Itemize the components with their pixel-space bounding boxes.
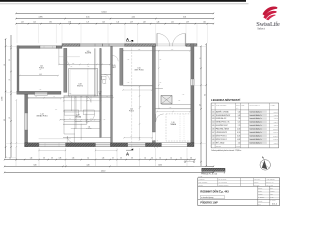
wall interior horiz L	[155, 108, 190, 110]
interior dim vert room 1.12	[139, 87, 141, 141]
svg-text:9,82: 9,82	[238, 115, 241, 117]
sill line lower left	[39, 138, 71, 140]
window dim stubs bottom	[39, 149, 66, 151]
bath fixture 1	[64, 110, 79, 115]
cluster vert x75	[74, 96, 76, 129]
witness lines top	[16, 24, 18, 44]
french door opening	[156, 43, 186, 45]
svg-text:1.01: 1.01	[40, 66, 43, 68]
svg-text:42,16: 42,16	[237, 132, 241, 134]
dimension column right inner	[200, 46, 202, 166]
svg-text:1,25: 1,25	[127, 59, 130, 61]
chimney base line	[162, 103, 191, 105]
svg-text:1,43: 1,43	[102, 22, 105, 24]
door arc room1	[63, 60, 69, 66]
svg-text:1.03: 1.03	[98, 92, 101, 94]
tech divider	[87, 68, 89, 96]
svg-text:1,25: 1,25	[87, 66, 90, 68]
witness stubs right	[194, 45, 206, 47]
svg-text:1,42: 1,42	[116, 22, 119, 24]
dimension row 1 (overall)	[16, 12, 214, 14]
svg-text:14,10: 14,10	[101, 170, 106, 172]
svg-text:1.12: 1.12	[130, 109, 133, 111]
svg-text:1.05: 1.05	[212, 125, 215, 127]
wc fixture	[102, 76, 106, 80]
title block upper verticals	[217, 178, 219, 187]
wall notch horizontal	[17, 91, 61, 94]
svg-text:1,4: 1,4	[87, 158, 89, 160]
svg-text:5,6: 5,6	[199, 104, 201, 106]
chimney	[161, 96, 172, 105]
svg-text:TECH. M.: TECH. M.	[77, 85, 84, 87]
vert x64 lower	[63, 96, 65, 135]
wall interior vert K	[152, 46, 155, 132]
cluster horiz y121.4	[64, 120, 82, 122]
svg-text:4,52: 4,52	[132, 17, 135, 19]
wall interior horiz WC top	[101, 73, 112, 75]
svg-text:1.08: 1.08	[212, 135, 215, 137]
closet line	[58, 49, 60, 65]
wall top hatched right	[186, 44, 197, 47]
svg-text:1,23: 1,23	[21, 22, 24, 24]
svg-text:A: A	[126, 152, 129, 157]
svg-text:3,25: 3,25	[138, 49, 141, 51]
svg-text:1.09: 1.09	[76, 115, 79, 117]
wall left lower	[25, 94, 28, 146]
svg-text:14,10: 14,10	[101, 11, 107, 13]
svg-text:1,94: 1,94	[68, 22, 71, 24]
wall interior vert D	[100, 48, 101, 137]
svg-text:4,55: 4,55	[86, 17, 89, 19]
svg-text:Rožánky: Rožánky	[254, 182, 259, 184]
title block section lines	[198, 185, 280, 187]
svg-text:1,82: 1,82	[203, 22, 206, 24]
wall top hatched left	[62, 44, 80, 47]
svg-text:5,80: 5,80	[34, 164, 37, 166]
wall left upper	[17, 46, 19, 91]
svg-text:1,55: 1,55	[72, 158, 75, 160]
dim row interior y97.5	[28, 97, 113, 99]
svg-text:1,25: 1,25	[159, 59, 162, 61]
svg-text:keramická dlažba, 1x: keramická dlažba, 1x	[250, 115, 263, 117]
dimension row 2	[16, 18, 214, 20]
svg-text:1,59: 1,59	[186, 22, 189, 24]
svg-text:1,45: 1,45	[102, 158, 105, 160]
svg-text:1,92: 1,92	[49, 22, 52, 24]
svg-text:1.06: 1.06	[137, 68, 140, 70]
svg-text:keramická dlažba, 1x: keramická dlažba, 1x	[250, 135, 263, 137]
svg-text:Vypracoval:: Vypracoval:	[199, 179, 206, 181]
svg-text:2,1: 2,1	[199, 57, 201, 59]
svg-text:1.10: 1.10	[212, 142, 215, 144]
wall interior horiz G	[64, 95, 113, 97]
svg-text:10,30: 10,30	[158, 164, 162, 166]
svg-text:keramická dlažba, 1x: keramická dlažba, 1x	[250, 118, 263, 120]
cluster vert x86.9	[86, 96, 88, 124]
door arc terrace	[156, 114, 164, 122]
window right WR	[191, 79, 194, 86]
svg-text:1,25: 1,25	[103, 119, 106, 121]
opening bottom terrace	[162, 143, 188, 147]
dimension column left inner	[10, 35, 12, 158]
wall bottom	[25, 143, 194, 147]
svg-text:0,9: 0,9	[43, 158, 45, 160]
svg-text:PŮDORYS 1.NP: PŮDORYS 1.NP	[200, 202, 218, 205]
svg-text:keramická dlažba, 1x: keramická dlažba, 1x	[250, 142, 263, 144]
svg-text:6,21: 6,21	[238, 122, 241, 124]
svg-text:1,46: 1,46	[157, 22, 160, 24]
svg-text:1.05: 1.05	[112, 65, 115, 67]
svg-text:keramická dlažba, 1x: keramická dlažba, 1x	[250, 129, 263, 131]
svg-text:CELKEM: CELKEM	[216, 146, 221, 148]
svg-text:1,0: 1,0	[170, 158, 172, 160]
wall interior vert E	[111, 46, 113, 142]
svg-text:1,44: 1,44	[30, 158, 33, 160]
interior dim row room 1.12	[124, 137, 152, 139]
svg-text:1.09: 1.09	[212, 139, 215, 141]
svg-text:1,25: 1,25	[178, 99, 181, 101]
svg-text:1,25: 1,25	[70, 66, 73, 68]
logo swoosh stroke 2	[263, 11, 276, 19]
interior dim vert right room	[158, 50, 160, 109]
dimension row bottom 3	[5, 171, 214, 173]
svg-text:1.01: 1.01	[212, 111, 215, 113]
svg-text:1,25: 1,25	[89, 119, 92, 121]
svg-text:0,8: 0,8	[190, 158, 192, 160]
svg-text:1.02: 1.02	[212, 115, 215, 117]
svg-text:1.10: 1.10	[171, 122, 174, 124]
svg-text:4,05: 4,05	[39, 74, 42, 76]
svg-text:1,28: 1,28	[143, 22, 146, 24]
wall interior vert C	[94, 48, 96, 96]
title block project sub	[200, 196, 225, 199]
interior dim stub 2	[64, 100, 101, 102]
entry door arc	[67, 136, 74, 143]
svg-text:16,35: 16,35	[237, 135, 241, 137]
door arc wc	[104, 74, 110, 80]
svg-text:0,95: 0,95	[59, 158, 62, 160]
window bottom W4	[96, 143, 111, 147]
interior dim stub 3	[123, 89, 152, 91]
dimension row bottom 1	[5, 159, 196, 161]
svg-text:5,0: 5,0	[4, 119, 6, 121]
svg-text:1,0: 1,0	[159, 158, 161, 160]
cluster horiz y124	[63, 123, 87, 125]
title block frame	[198, 178, 280, 206]
svg-text:POKOJ: POKOJ	[129, 110, 134, 112]
svg-text:Select: Select	[257, 26, 265, 30]
svg-text:±0,000: ±0,000	[2, 96, 4, 101]
room dim line 1.01	[20, 75, 59, 77]
top border underline	[0, 3, 249, 5]
svg-text:1,25: 1,25	[104, 83, 107, 85]
interior dim vert left	[15, 100, 17, 160]
svg-text:1,25: 1,25	[127, 82, 130, 84]
svg-text:1,25: 1,25	[87, 100, 90, 102]
cluster vert x71	[71, 96, 73, 111]
svg-text:2,15: 2,15	[238, 125, 241, 127]
wall interior vert B	[64, 48, 67, 92]
title block drawing row	[258, 201, 270, 203]
cluster horiz y121	[75, 120, 100, 122]
svg-text:0,6: 0,6	[9, 158, 11, 160]
svg-text:4,9: 4,9	[9, 117, 11, 119]
svg-text:0,9: 0,9	[120, 158, 122, 160]
svg-text:keramická dlažba, 1x: keramická dlažba, 1x	[250, 125, 263, 127]
window left WL	[25, 113, 28, 130]
cluster vert x81 lower	[80, 124, 82, 140]
svg-text:WC: WC	[99, 93, 101, 95]
dimension row bottom 2	[5, 165, 214, 167]
title block upper rows	[198, 180, 254, 182]
door arc hall	[86, 114, 95, 123]
beam detail bar	[202, 168, 225, 171]
svg-text:08/2014: 08/2014	[270, 191, 275, 193]
terrace dashed box	[166, 114, 191, 141]
svg-text:1.05: 1.05	[87, 51, 90, 53]
svg-text:Bc. Jan Novák: Bc. Jan Novák	[219, 179, 227, 181]
terrace dashed stubs	[154, 140, 156, 148]
interior dim row y119.8	[60, 119, 101, 121]
title block middle rows	[258, 188, 280, 190]
entry room line	[71, 127, 100, 129]
svg-text:DSP: DSP	[270, 188, 273, 190]
svg-text:1,25: 1,25	[33, 22, 36, 24]
wall interior horiz J	[123, 84, 152, 86]
svg-text:5,74: 5,74	[183, 17, 186, 19]
interior dim stub 1	[59, 63, 110, 65]
legend row lines	[211, 112, 279, 114]
svg-text:1,0: 1,0	[144, 158, 146, 160]
svg-text:A: A	[126, 37, 129, 42]
witness lines bottom	[15, 148, 17, 166]
wall interior vert K lower	[152, 141, 155, 143]
svg-text:12,40: 12,40	[237, 129, 241, 131]
svg-text:1,42: 1,42	[171, 22, 174, 24]
svg-text:2,1: 2,1	[180, 158, 182, 160]
svg-text:Ing. P. Svoboda: Ing. P. Svoboda	[219, 182, 228, 184]
room box technical inner	[70, 70, 96, 95]
title block middle verticals	[257, 186, 259, 205]
svg-text:0,7: 0,7	[112, 158, 114, 160]
cluster horiz y137	[63, 136, 111, 138]
level circles	[185, 161, 194, 163]
dimension row 3	[16, 23, 214, 25]
legend header bottom	[211, 109, 279, 111]
compass needle	[262, 160, 267, 169]
svg-text:1,25: 1,25	[139, 106, 142, 108]
svg-text:1,25: 1,25	[182, 94, 185, 96]
window bottom W3	[39, 143, 66, 147]
wall top mid	[56, 46, 62, 49]
svg-text:keramická dlažba, 1x: keramická dlažba, 1x	[250, 139, 263, 141]
interior dim stub 6	[157, 111, 190, 113]
svg-text:1,71: 1,71	[87, 22, 90, 24]
svg-text:5,60: 5,60	[238, 111, 241, 113]
svg-text:4,875: 4,875	[39, 17, 43, 19]
interior dim stub 4	[123, 50, 190, 52]
svg-text:2,55: 2,55	[72, 63, 75, 65]
svg-text:1,25: 1,25	[69, 93, 72, 95]
svg-text:1:50: 1:50	[270, 193, 273, 195]
witness stubs left	[6, 45, 17, 47]
compass circle	[260, 160, 270, 170]
svg-text:1.06: 1.06	[212, 129, 215, 131]
svg-text:1.14: 1.14	[40, 114, 43, 116]
wall interior vert I	[120, 48, 123, 85]
svg-text:4,40: 4,40	[87, 164, 90, 166]
svg-text:14,82: 14,82	[237, 139, 241, 141]
wall right	[191, 44, 194, 144]
svg-text:keramická dlažba, 1x: keramická dlažba, 1x	[250, 132, 263, 134]
svg-text:2,3: 2,3	[9, 59, 11, 61]
svg-text:0,6: 0,6	[151, 158, 153, 160]
room box technical	[69, 68, 98, 96]
window bottom W5	[128, 143, 146, 147]
svg-text:9,9: 9,9	[205, 94, 207, 96]
legend frame	[211, 103, 279, 148]
svg-text:0,9: 0,9	[131, 158, 133, 160]
svg-text:0,9: 0,9	[51, 158, 53, 160]
wall top hatched mid	[125, 44, 156, 47]
wall top-left	[17, 46, 40, 49]
svg-text:173,86: 173,86	[236, 146, 240, 148]
svg-text:1,25: 1,25	[39, 69, 42, 71]
svg-text:manželé Novákovi: manželé Novákovi	[219, 185, 229, 187]
beam detail dim	[202, 172, 225, 174]
bath fixture 2	[83, 110, 94, 115]
dimension column right outer	[205, 44, 207, 166]
svg-text:1.01: 1.01	[88, 126, 91, 128]
svg-text:3,45: 3,45	[171, 49, 174, 51]
svg-text:D.1.1: D.1.1	[272, 203, 278, 205]
svg-text:1.04: 1.04	[212, 122, 215, 124]
svg-text:keramická dlažba, 1x: keramická dlažba, 1x	[250, 111, 263, 113]
window top W1	[40, 46, 56, 49]
svg-text:1,29: 1,29	[130, 22, 133, 24]
door arc bath	[85, 96, 92, 103]
hall line y57	[59, 56, 80, 58]
top border bar	[0, 0, 246, 2]
cluster horiz y111	[63, 110, 100, 112]
section line A-A	[131, 42, 133, 149]
svg-text:4,6: 4,6	[4, 64, 6, 66]
interior dim stub 5	[28, 98, 61, 100]
svg-text:keramická dlažba, 1x: keramická dlažba, 1x	[250, 122, 263, 124]
svg-text:1.08: 1.08	[78, 84, 81, 86]
svg-text:14-05: 14-05	[270, 196, 273, 198]
svg-text:RODINNÝ DŮM Č.p. 443: RODINNÝ DŮM Č.p. 443	[200, 191, 229, 194]
svg-text:2,97: 2,97	[55, 109, 58, 111]
svg-text:1,25: 1,25	[169, 107, 172, 109]
window notch	[35, 92, 48, 95]
window top W2	[80, 44, 125, 47]
svg-text:1.03: 1.03	[212, 118, 215, 120]
svg-text:1,25: 1,25	[39, 89, 42, 91]
logo swoosh stroke 1	[263, 7, 278, 16]
dimension column left outer	[5, 39, 7, 158]
svg-text:1,25: 1,25	[159, 82, 162, 84]
logo swoosh stroke 3	[266, 15, 275, 21]
legend column lines	[214, 103, 216, 148]
svg-text:3,10: 3,10	[238, 142, 241, 144]
svg-text:7,45: 7,45	[238, 118, 241, 120]
svg-text:1.07: 1.07	[212, 132, 215, 134]
svg-text:1,9: 1,9	[9, 79, 11, 81]
cluster vert x81	[80, 96, 82, 111]
door arc mid room	[112, 56, 118, 62]
chimney link line	[155, 88, 163, 90]
